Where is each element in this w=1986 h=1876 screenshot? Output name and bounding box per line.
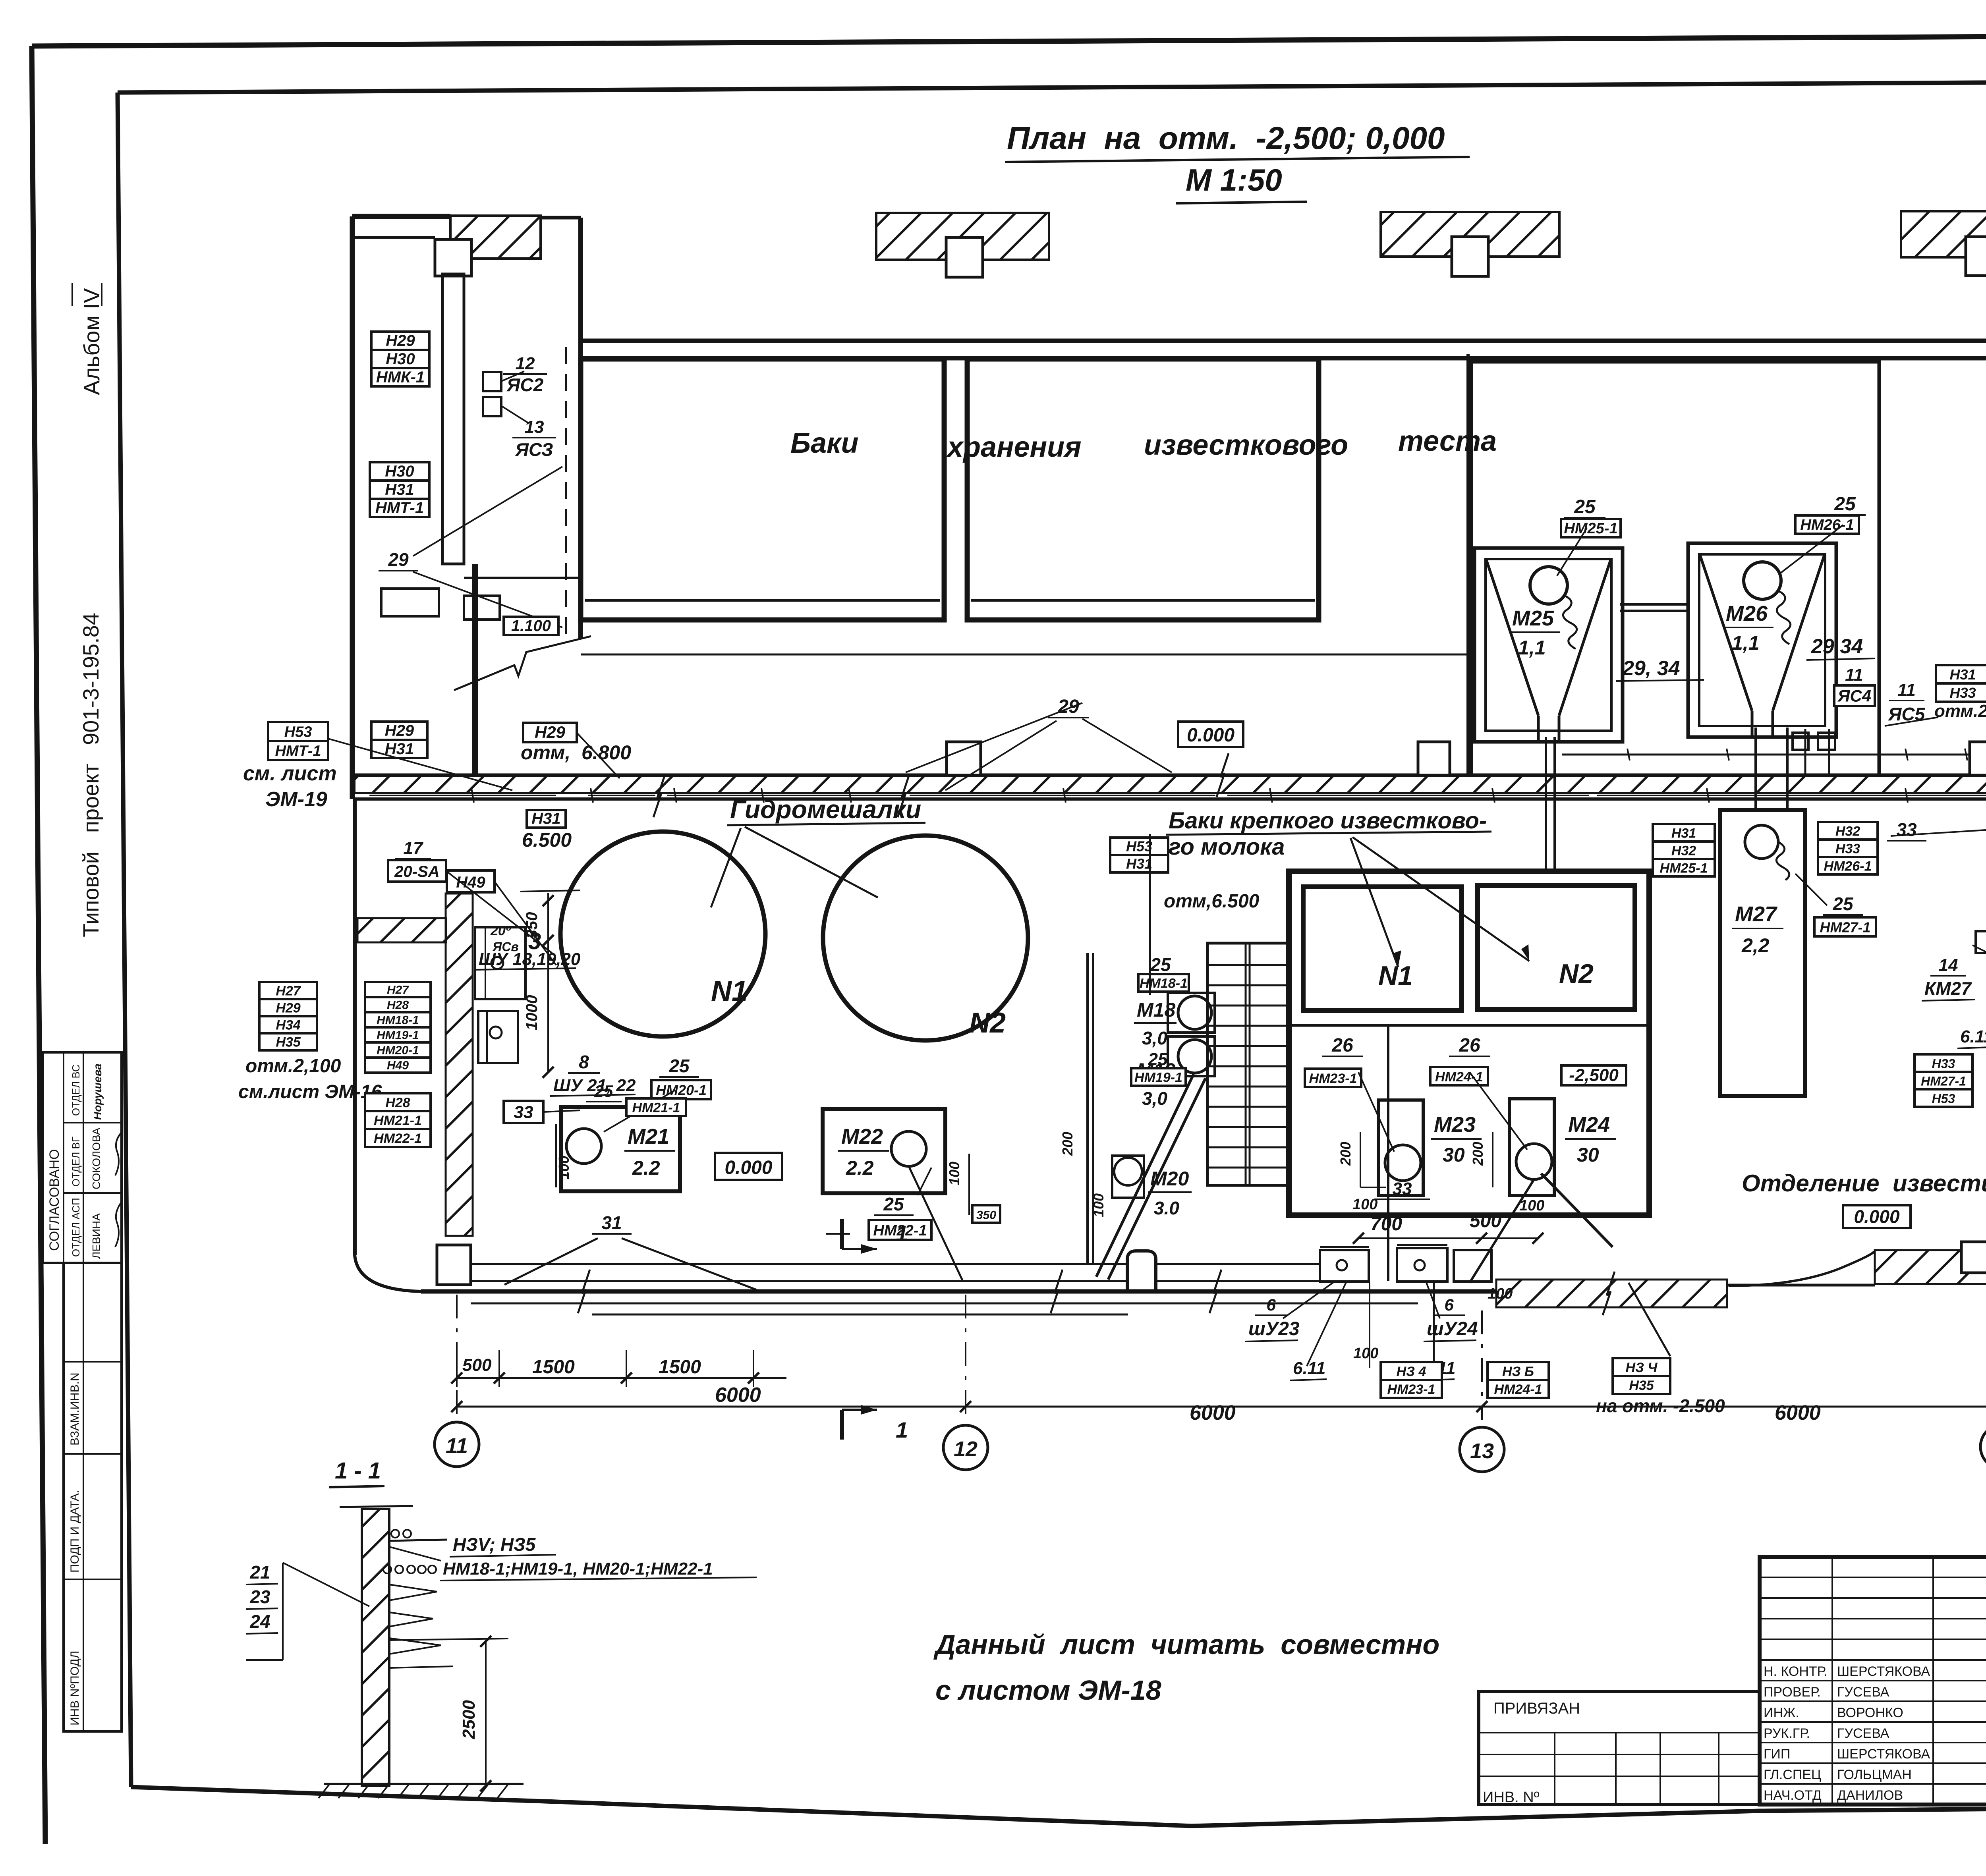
svg-text:см.лист ЭМ-16: см.лист ЭМ-16 [238, 1081, 382, 1102]
svg-text:1,1: 1,1 [1518, 637, 1546, 659]
svg-text:СОКОЛОВА: СОКОЛОВА [90, 1127, 102, 1189]
svg-text:8: 8 [579, 1052, 589, 1072]
svg-text:24: 24 [249, 1611, 270, 1632]
svg-text:ГУСЕВА: ГУСЕВА [1837, 1685, 1889, 1700]
svg-text:Данный лист читать совместн: Данный лист читать совместно [933, 1629, 1439, 1660]
svg-text:Н31: Н31 [1671, 826, 1696, 841]
svg-text:ГОЛЬЦМАН: ГОЛЬЦМАН [1837, 1767, 1912, 1782]
svg-text:ЛЕВИНА: ЛЕВИНА [90, 1213, 102, 1259]
svg-text:М21: М21 [628, 1125, 669, 1148]
svg-text:НМ24-1: НМ24-1 [1435, 1069, 1483, 1085]
svg-text:НМ27-1: НМ27-1 [1820, 919, 1870, 935]
svg-text:НМ25-1: НМ25-1 [1564, 520, 1617, 537]
svg-text:Н33: Н33 [1932, 1056, 1955, 1071]
svg-text:отм, 6.800: отм, 6.800 [521, 741, 631, 764]
svg-text:Н49: Н49 [387, 1059, 409, 1072]
svg-text:2,2: 2,2 [1741, 934, 1770, 957]
svg-text:12: 12 [954, 1437, 978, 1461]
svg-text:ЯС5: ЯС5 [1888, 704, 1926, 724]
svg-text:25: 25 [668, 1056, 690, 1076]
svg-text:Н31: Н31 [385, 481, 414, 498]
svg-text:НМ24-1: НМ24-1 [1494, 1382, 1542, 1397]
svg-text:6: 6 [1444, 1295, 1454, 1314]
svg-text:Типовой проект 901-3-195.8: Типовой проект 901-3-195.84 [78, 613, 103, 937]
svg-text:11: 11 [1897, 680, 1916, 700]
svg-text:НМ20-1: НМ20-1 [377, 1044, 419, 1057]
svg-text:НАЧ.ОТД: НАЧ.ОТД [1764, 1788, 1822, 1803]
svg-text:0.000: 0.000 [1187, 725, 1234, 746]
svg-text:2.2: 2.2 [632, 1157, 660, 1179]
svg-text:6: 6 [1266, 1295, 1276, 1314]
svg-text:25: 25 [1574, 496, 1596, 517]
svg-text:25: 25 [1150, 954, 1171, 975]
svg-text:М27: М27 [1735, 902, 1778, 926]
svg-text:Н33: Н33 [1835, 841, 1860, 856]
svg-text:НМ27-1: НМ27-1 [1921, 1074, 1966, 1088]
svg-text:НМ19-1: НМ19-1 [377, 1029, 419, 1042]
svg-text:ИНВ NºПОДЛ: ИНВ NºПОДЛ [68, 1651, 81, 1725]
svg-text:1000: 1000 [523, 995, 541, 1031]
svg-text:Н. КОНТР.: Н. КОНТР. [1764, 1664, 1827, 1679]
svg-text:30: 30 [1443, 1144, 1465, 1166]
svg-text:12: 12 [516, 354, 535, 373]
svg-text:НМ19-1: НМ19-1 [1134, 1070, 1182, 1085]
svg-text:700: 700 [1370, 1214, 1402, 1235]
svg-text:СОГЛАСОВАНО: СОГЛАСОВАНО [47, 1149, 62, 1251]
svg-text:6000: 6000 [1190, 1401, 1236, 1424]
svg-text:отм.2,100: отм.2,100 [245, 1056, 341, 1077]
svg-text:33: 33 [1393, 1179, 1412, 1199]
svg-text:М23: М23 [1434, 1113, 1476, 1137]
svg-text:НЗ Б: НЗ Б [1502, 1364, 1534, 1379]
svg-text:ИНЖ.: ИНЖ. [1764, 1705, 1799, 1720]
svg-text:НМ26-1: НМ26-1 [1800, 517, 1854, 533]
svg-text:3,0: 3,0 [1142, 1028, 1167, 1048]
svg-text:14: 14 [1939, 955, 1958, 975]
svg-text:29: 29 [388, 549, 409, 570]
svg-text:1500: 1500 [659, 1357, 701, 1378]
svg-text:Альбом IV: Альбом IV [79, 288, 104, 395]
svg-text:теста: теста [1398, 425, 1497, 457]
svg-text:1.100: 1.100 [511, 617, 551, 635]
svg-text:11: 11 [446, 1434, 468, 1458]
svg-text:Н30: Н30 [386, 350, 415, 368]
svg-text:25: 25 [1832, 894, 1854, 914]
svg-text:100: 100 [946, 1162, 962, 1185]
svg-text:25: 25 [883, 1194, 904, 1214]
svg-text:2.2: 2.2 [846, 1157, 874, 1179]
svg-text:Н53: Н53 [284, 724, 312, 740]
svg-text:НЗV; НЗ5: НЗV; НЗ5 [453, 1534, 536, 1555]
svg-text:М25: М25 [1512, 606, 1554, 630]
svg-text:ПРИВЯЗАН: ПРИВЯЗАН [1493, 1700, 1580, 1717]
svg-text:ОТДЕЛ ВС: ОТДЕЛ ВС [70, 1064, 82, 1116]
svg-text:25: 25 [1148, 1050, 1168, 1069]
svg-text:3,0: 3,0 [1142, 1088, 1167, 1109]
svg-text:13: 13 [1470, 1439, 1494, 1463]
svg-text:350: 350 [976, 1208, 996, 1222]
svg-text:НМ23-1: НМ23-1 [1309, 1071, 1357, 1086]
svg-text:26: 26 [1331, 1035, 1353, 1056]
svg-text:ИНВ. Nº: ИНВ. Nº [1483, 1789, 1540, 1806]
svg-text:НМ23-1: НМ23-1 [1387, 1382, 1435, 1397]
svg-text:Норушева: Норушева [91, 1063, 104, 1120]
svg-text:НМ25-1: НМ25-1 [1660, 861, 1708, 876]
svg-text:КМ27: КМ27 [1924, 978, 1972, 999]
svg-text:11: 11 [1845, 665, 1863, 685]
svg-text:ЯСЗ: ЯСЗ [515, 439, 553, 460]
svg-text:33: 33 [1896, 819, 1917, 840]
svg-text:100: 100 [556, 1156, 572, 1179]
svg-text:-2,500: -2,500 [1569, 1065, 1619, 1085]
svg-text:ЯС2: ЯС2 [506, 374, 544, 395]
svg-text:31: 31 [601, 1212, 622, 1233]
svg-text:Баки: Баки [790, 427, 859, 459]
svg-text:100: 100 [1519, 1197, 1544, 1214]
svg-text:известкового: известкового [1144, 429, 1348, 461]
svg-text:Н31: Н31 [1126, 855, 1152, 872]
svg-text:1500: 1500 [532, 1357, 575, 1378]
svg-text:НЗ 4: НЗ 4 [1397, 1364, 1426, 1379]
svg-text:НМ20-1: НМ20-1 [656, 1082, 707, 1098]
svg-text:N1: N1 [711, 975, 748, 1007]
svg-text:Н53: Н53 [1932, 1091, 1955, 1106]
svg-text:Баки крепкого известково-: Баки крепкого известково- [1169, 808, 1487, 834]
svg-text:25: 25 [594, 1082, 613, 1100]
svg-text:ЯС4: ЯС4 [1837, 687, 1871, 705]
svg-text:6.500: 6.500 [522, 829, 572, 851]
svg-text:200: 200 [1059, 1132, 1076, 1156]
svg-text:Н35: Н35 [276, 1035, 301, 1050]
svg-text:500: 500 [1470, 1210, 1501, 1231]
svg-text:ГУСЕВА: ГУСЕВА [1837, 1726, 1889, 1741]
svg-text:100: 100 [1353, 1345, 1378, 1362]
svg-text:Н28: Н28 [385, 1095, 410, 1110]
svg-text:М 1:50: М 1:50 [1186, 162, 1282, 197]
svg-text:М22: М22 [841, 1125, 883, 1148]
svg-text:Гидромешалки: Гидромешалки [730, 795, 921, 824]
svg-text:отм.2,100: отм.2,100 [1934, 701, 1986, 721]
svg-text:см. лист: см. лист [243, 762, 337, 785]
svg-text:Н31: Н31 [1949, 666, 1976, 683]
svg-text:200: 200 [1470, 1142, 1486, 1166]
svg-text:6000: 6000 [1775, 1401, 1821, 1424]
svg-text:200: 200 [1337, 1142, 1354, 1166]
svg-text:ПОДП И ДАТА.: ПОДП И ДАТА. [68, 1490, 81, 1573]
svg-text:шУ23: шУ23 [1248, 1318, 1300, 1339]
svg-text:НЗ Ч: НЗ Ч [1626, 1360, 1658, 1375]
svg-text:Н30: Н30 [385, 463, 414, 480]
svg-text:Отделение извести: Отделение извести [1742, 1170, 1986, 1197]
svg-text:ДАНИЛОВ: ДАНИЛОВ [1837, 1788, 1903, 1803]
svg-text:ГЛ.СПЕЦ: ГЛ.СПЕЦ [1764, 1767, 1821, 1782]
svg-text:отм,6.500: отм,6.500 [1164, 891, 1260, 912]
svg-text:НМТ-1: НМТ-1 [375, 499, 424, 517]
svg-text:29: 29 [1057, 696, 1079, 717]
svg-text:23: 23 [249, 1586, 270, 1607]
svg-text:26: 26 [1459, 1035, 1480, 1056]
svg-text:N2: N2 [969, 1007, 1006, 1039]
svg-text:НМ26-1: НМ26-1 [1824, 859, 1872, 874]
svg-text:30: 30 [1577, 1144, 1599, 1166]
svg-text:ЭМ-19: ЭМ-19 [265, 788, 327, 811]
svg-text:6.11: 6.11 [1960, 1027, 1986, 1046]
svg-text:Н35: Н35 [1629, 1378, 1654, 1393]
svg-text:29,34: 29,34 [1811, 635, 1863, 658]
svg-text:Н29: Н29 [386, 332, 415, 349]
svg-text:1,1: 1,1 [1732, 632, 1760, 654]
svg-text:М18: М18 [1137, 999, 1175, 1021]
svg-text:Н32: Н32 [1671, 843, 1696, 858]
svg-text:НМ18-1: НМ18-1 [377, 1014, 419, 1027]
svg-text:ОТДЕЛ ВГ: ОТДЕЛ ВГ [70, 1137, 82, 1187]
svg-text:ВЗАМ.ИНВ.N: ВЗАМ.ИНВ.N [68, 1372, 81, 1446]
svg-text:Н29: Н29 [276, 1001, 300, 1016]
svg-text:21: 21 [249, 1562, 270, 1583]
svg-text:3.0: 3.0 [1154, 1198, 1179, 1218]
svg-text:Н32: Н32 [1835, 824, 1860, 839]
svg-text:ПРОВЕР.: ПРОВЕР. [1764, 1685, 1821, 1700]
svg-text:с листом ЭМ-18: с листом ЭМ-18 [935, 1675, 1161, 1706]
svg-text:1: 1 [896, 1417, 908, 1442]
svg-text:М24: М24 [1568, 1113, 1610, 1137]
svg-text:ГИП: ГИП [1764, 1747, 1790, 1762]
svg-text:Н27: Н27 [276, 984, 301, 999]
svg-text:25: 25 [1834, 494, 1856, 515]
svg-text:0.000: 0.000 [1854, 1206, 1900, 1227]
svg-text:НМТ-1: НМТ-1 [275, 743, 321, 759]
svg-text:500: 500 [462, 1355, 492, 1375]
svg-text:1 - 1: 1 - 1 [335, 1458, 381, 1484]
svg-text:100: 100 [1352, 1196, 1377, 1213]
svg-text:Н27: Н27 [387, 984, 409, 997]
svg-text:Н33: Н33 [1949, 685, 1976, 701]
svg-text:План на отм. -2,500; 0,000: План на отм. -2,500; 0,000 [1007, 120, 1445, 156]
svg-text:ВОРОНКО: ВОРОНКО [1837, 1705, 1903, 1720]
svg-text:N2: N2 [1559, 959, 1594, 989]
svg-text:ШУ 18,19,20: ШУ 18,19,20 [479, 950, 581, 969]
svg-text:13: 13 [525, 417, 544, 437]
svg-text:ШЕРСТЯКОВА: ШЕРСТЯКОВА [1837, 1747, 1930, 1762]
svg-text:0.000: 0.000 [724, 1157, 772, 1178]
svg-text:Н53: Н53 [1126, 838, 1152, 854]
svg-text:6000: 6000 [715, 1384, 761, 1407]
svg-text:Н29: Н29 [535, 723, 566, 741]
svg-text:29, 34: 29, 34 [1622, 657, 1680, 680]
svg-text:350: 350 [523, 912, 541, 939]
svg-text:20º: 20º [490, 923, 511, 938]
svg-text:НМ21-1: НМ21-1 [632, 1100, 680, 1115]
svg-text:17: 17 [404, 838, 424, 858]
svg-text:НМ22-1: НМ22-1 [374, 1131, 422, 1146]
svg-text:НМК-1: НМК-1 [376, 369, 425, 386]
svg-text:НМ18-1: НМ18-1 [1140, 976, 1188, 991]
svg-text:го молока: го молока [1169, 834, 1285, 860]
svg-text:М26: М26 [1726, 602, 1768, 625]
svg-text:Н28: Н28 [387, 999, 409, 1012]
svg-text:20-SA: 20-SA [394, 863, 439, 880]
svg-text:N1: N1 [1378, 961, 1413, 991]
svg-text:Н29: Н29 [385, 722, 414, 739]
svg-text:РУК.ГР.: РУК.ГР. [1764, 1726, 1810, 1741]
svg-text:Н31: Н31 [531, 810, 560, 827]
svg-text:хранения: хранения [946, 431, 1081, 463]
svg-text:33: 33 [514, 1103, 533, 1122]
svg-text:1: 1 [896, 1221, 908, 1246]
svg-text:НМ21-1: НМ21-1 [374, 1113, 422, 1128]
svg-text:ШЕРСТЯКОВА: ШЕРСТЯКОВА [1837, 1664, 1930, 1679]
svg-text:Н34: Н34 [276, 1018, 300, 1033]
svg-text:ОТДЕЛ АСП: ОТДЕЛ АСП [70, 1198, 82, 1257]
svg-text:НМ18-1;НМ19-1, НМ20-1;НМ22-1: НМ18-1;НМ19-1, НМ20-1;НМ22-1 [443, 1559, 713, 1579]
svg-text:2500: 2500 [459, 1700, 479, 1739]
